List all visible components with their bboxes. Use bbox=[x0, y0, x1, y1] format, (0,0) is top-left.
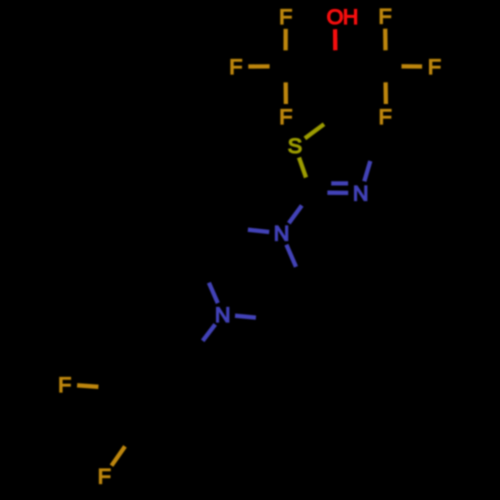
svg-text:N: N bbox=[215, 302, 231, 327]
svg-text:S: S bbox=[288, 133, 302, 158]
svg-text:F: F bbox=[279, 104, 292, 129]
svg-text:N: N bbox=[353, 181, 369, 206]
svg-text:O: O bbox=[327, 4, 344, 29]
svg-text:F: F bbox=[229, 54, 242, 79]
svg-text:F: F bbox=[378, 4, 391, 29]
svg-text:N: N bbox=[274, 221, 290, 246]
svg-text:H: H bbox=[343, 4, 359, 29]
svg-text:F: F bbox=[379, 104, 392, 129]
svg-text:F: F bbox=[428, 54, 441, 79]
svg-text:F: F bbox=[279, 4, 292, 29]
svg-text:F: F bbox=[58, 372, 71, 397]
svg-text:F: F bbox=[98, 463, 111, 488]
